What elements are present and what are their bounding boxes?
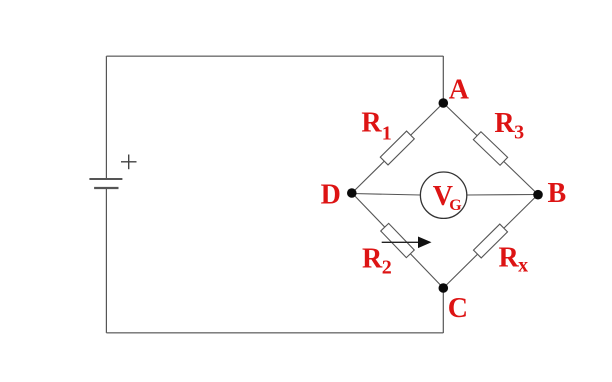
svg-text:C: C: [448, 293, 468, 324]
node D: [347, 188, 357, 198]
battery B1 short plate (-): [94, 187, 118, 189]
resistor Rx body: [473, 224, 507, 258]
resistor R1 body: [380, 131, 414, 165]
wire right drop to node A: [442, 56, 444, 103]
plus sign: [121, 155, 137, 170]
svg-text:R: R: [362, 244, 383, 275]
battery B1 long plate (+): [89, 178, 122, 180]
svg-text:D: D: [321, 180, 341, 211]
wire D to galvanometer: [352, 194, 420, 196]
wiper arrow on R2: [382, 237, 432, 249]
svg-text:R: R: [494, 108, 515, 139]
svg-text:R: R: [361, 108, 382, 139]
svg-text:3: 3: [514, 121, 524, 143]
wire bottom-left vertical (battery - to bottom rail): [105, 188, 107, 333]
wire arm D-C: [352, 193, 443, 288]
node A: [439, 98, 449, 108]
svg-text:x: x: [518, 254, 528, 276]
wire arm D-A: [352, 103, 443, 193]
wire top rail: [106, 55, 443, 57]
wire top-left vertical (battery + to top rail): [105, 56, 107, 179]
galvanometer G circle: [420, 172, 466, 218]
resistor R2 body: [381, 223, 415, 257]
svg-text:A: A: [449, 74, 470, 105]
wire galvanometer to B: [467, 194, 538, 197]
node B: [533, 190, 543, 200]
svg-text:G: G: [449, 197, 462, 214]
svg-text:R: R: [499, 243, 520, 274]
svg-text:2: 2: [382, 256, 392, 278]
svg-text:1: 1: [382, 122, 392, 144]
wire bottom rail: [106, 332, 443, 334]
wire arm C-B: [443, 195, 538, 289]
wire arm A-B: [443, 103, 538, 195]
svg-text:B: B: [548, 178, 567, 209]
resistor R3 body: [473, 132, 507, 166]
wire rise from node C: [442, 288, 444, 333]
node C: [439, 283, 449, 293]
